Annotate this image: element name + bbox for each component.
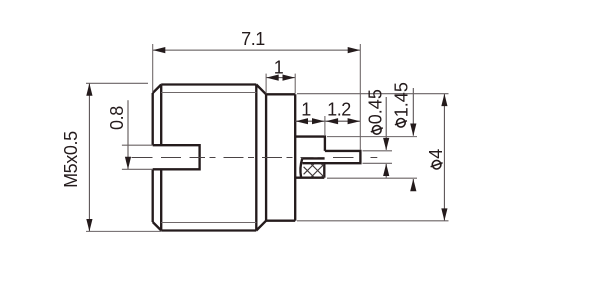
svg-text:1: 1 [301, 99, 311, 119]
svg-text:1.45: 1.45 [392, 82, 412, 117]
svg-text:0.45: 0.45 [366, 89, 386, 124]
svg-text:4: 4 [426, 149, 446, 159]
svg-text:0.8: 0.8 [107, 106, 127, 130]
svg-text:1.2: 1.2 [327, 99, 351, 119]
svg-text:7.1: 7.1 [241, 29, 265, 49]
svg-text:1: 1 [274, 58, 284, 78]
svg-text:M5x0.5: M5x0.5 [61, 131, 81, 188]
